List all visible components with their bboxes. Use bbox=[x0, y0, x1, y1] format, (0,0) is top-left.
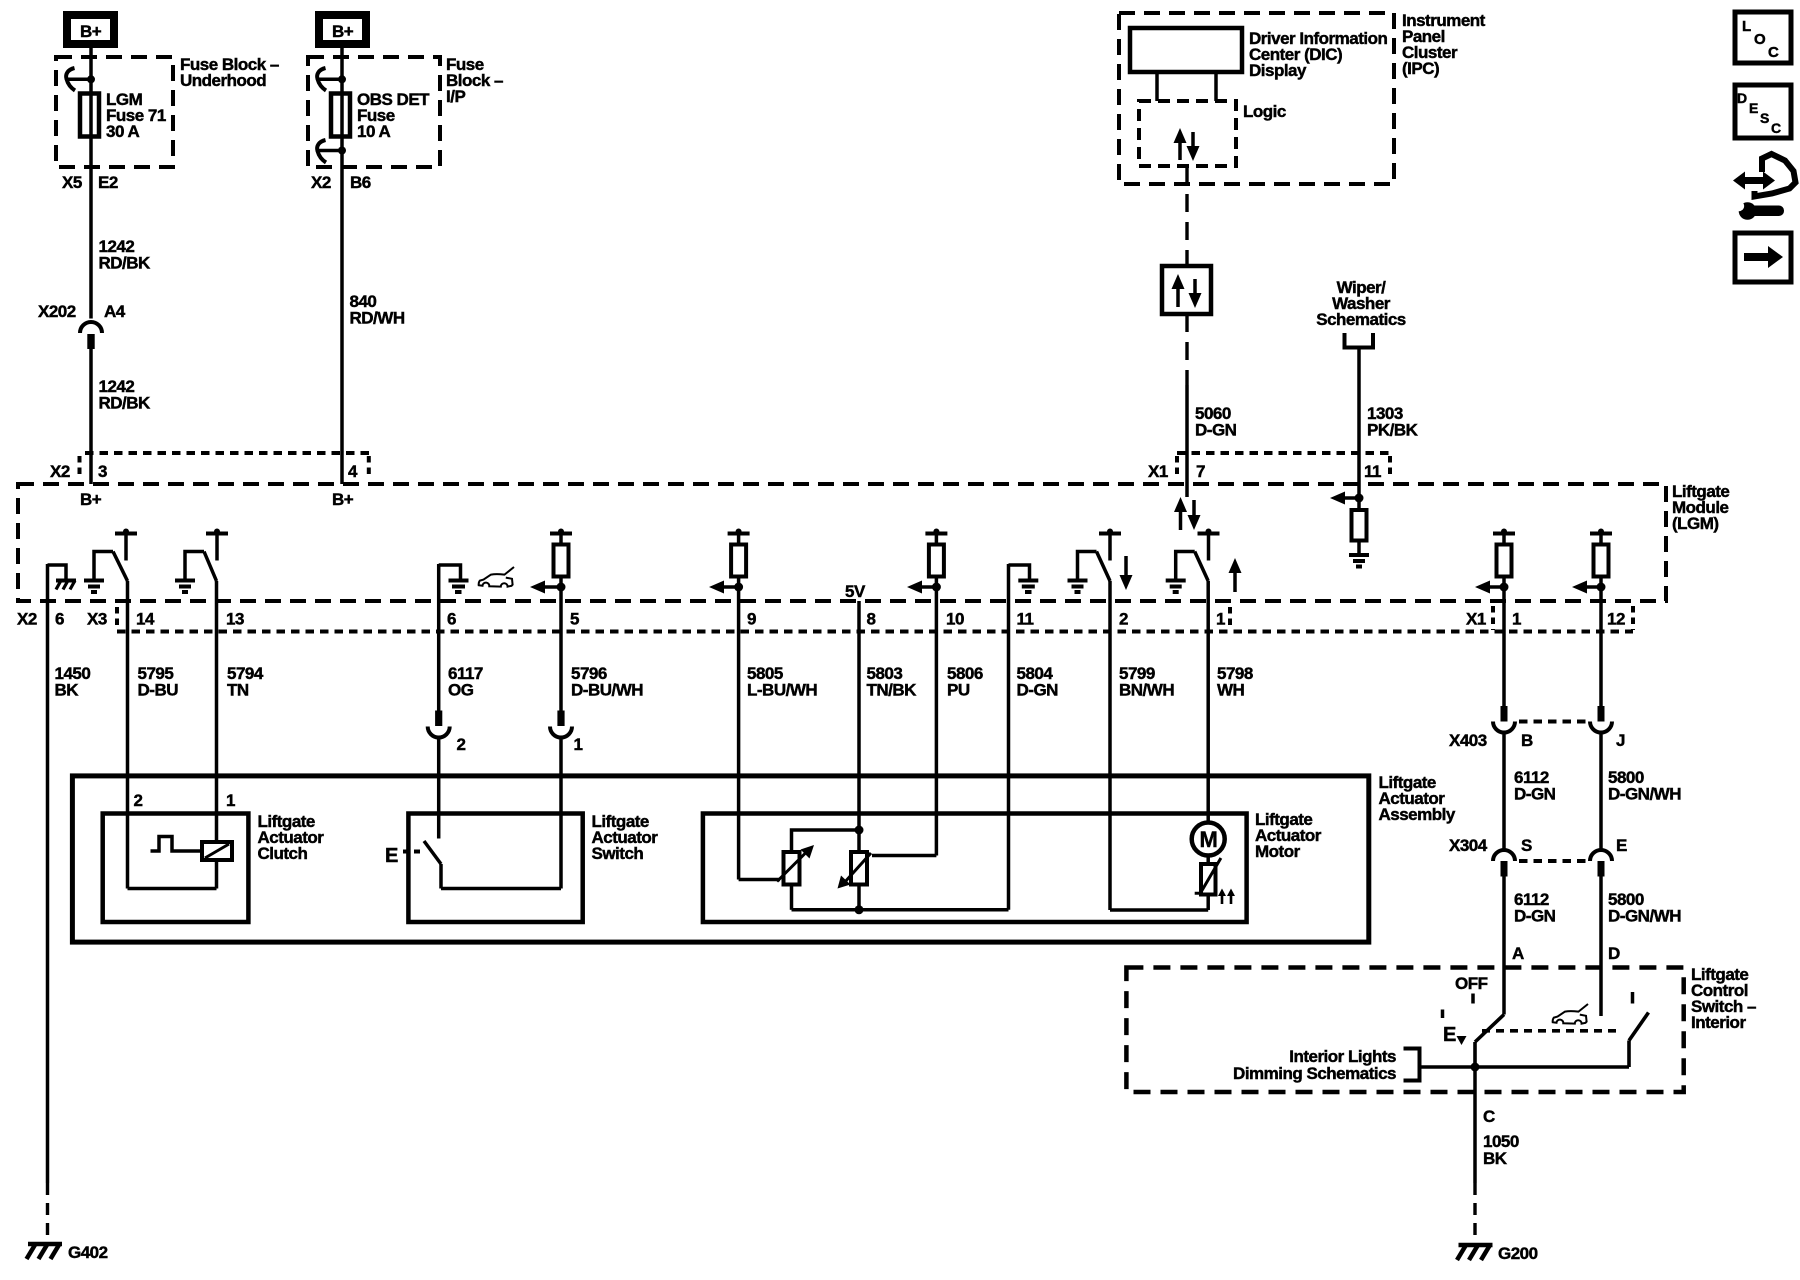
svg-text:D-GN: D-GN bbox=[1195, 421, 1237, 440]
svg-text:X3: X3 bbox=[87, 610, 107, 629]
svg-text:5: 5 bbox=[570, 610, 579, 629]
resistor X1-1 bbox=[1493, 529, 1515, 588]
pin labels X2 B6 bbox=[311, 173, 371, 192]
terminal clip hook OBS bottom bbox=[317, 140, 346, 163]
svg-text:D-GN: D-GN bbox=[1514, 907, 1556, 926]
label Fuse Block Underhood bbox=[180, 55, 279, 90]
switch LGM pin14 ground bbox=[84, 552, 113, 593]
svg-text:E: E bbox=[1443, 1024, 1456, 1046]
wire 5800 D-GN/WH mid bbox=[1599, 733, 1603, 851]
wire pot1 top to 5V bbox=[792, 830, 860, 852]
svg-text:A4: A4 bbox=[104, 302, 126, 321]
wire 5805 L-BU/WH bbox=[739, 587, 818, 880]
liftgate car icon switch bbox=[1553, 1004, 1588, 1024]
switch actuator blade bbox=[424, 841, 561, 889]
up arrow in logic box bbox=[1174, 128, 1187, 160]
wire 5796 D-BU/WH bbox=[561, 587, 643, 711]
fuse block I/P box bbox=[308, 57, 440, 167]
wire 6117 OG to switch bbox=[437, 738, 441, 839]
inline connector X202 A4 bbox=[38, 302, 126, 349]
svg-text:D-BU/WH: D-BU/WH bbox=[571, 681, 643, 700]
svg-text:J: J bbox=[1616, 731, 1625, 750]
svg-text:D-GN: D-GN bbox=[1514, 785, 1556, 804]
tiny up arrows thermistor bbox=[1218, 889, 1235, 905]
svg-text:13: 13 bbox=[226, 610, 244, 629]
tick X3 bbox=[115, 607, 119, 630]
wire B+ feed to LGM fuse bbox=[89, 48, 93, 319]
node sensor ground junction bbox=[855, 905, 864, 914]
connector row X3/X1 dotted line bbox=[117, 630, 1633, 634]
dashed wire serial box down bbox=[1185, 314, 1188, 385]
liftgate car icon module bbox=[479, 567, 514, 587]
resistor LGM pin5 bbox=[550, 529, 572, 588]
svg-text:O: O bbox=[1754, 31, 1766, 48]
logic box bbox=[1139, 101, 1236, 166]
svg-text:X304: X304 bbox=[1449, 836, 1488, 855]
switch LGM pin1 blade bbox=[1195, 552, 1209, 582]
svg-text:RD/WH: RD/WH bbox=[350, 309, 405, 328]
svg-text:C: C bbox=[1768, 44, 1779, 61]
svg-text:B: B bbox=[1521, 731, 1533, 750]
label Liftgate Actuator Motor bbox=[1255, 810, 1322, 861]
wire 6112 D-GN upper bbox=[1504, 587, 1556, 804]
svg-text:BK: BK bbox=[1483, 1149, 1508, 1168]
svg-text:2: 2 bbox=[134, 791, 143, 810]
wire 1050 BK bbox=[1475, 1067, 1519, 1246]
svg-text:I/P: I/P bbox=[446, 87, 465, 106]
icon diagnostic arrows bbox=[1733, 154, 1796, 197]
potentiometer sensor2 bbox=[838, 852, 872, 889]
tick X1 left bbox=[1491, 606, 1495, 630]
switch LGM pin1 contact bbox=[1198, 529, 1220, 561]
svg-text:E: E bbox=[1616, 836, 1627, 855]
wire 5806 PU bbox=[936, 587, 982, 856]
svg-text:3: 3 bbox=[98, 462, 107, 481]
svg-text:Schematics: Schematics bbox=[1316, 310, 1406, 329]
potentiometer sensor1 bbox=[777, 845, 814, 885]
labels X403 B J bbox=[1449, 731, 1625, 750]
svg-text:6: 6 bbox=[447, 610, 456, 629]
svg-text:D: D bbox=[1608, 944, 1620, 963]
svg-text:9: 9 bbox=[747, 610, 756, 629]
left arrow X1-12 input bbox=[1572, 581, 1606, 594]
connector X1 row pins 7 and 11 bbox=[1148, 453, 1390, 481]
bracket wiper washer feed bbox=[1345, 333, 1374, 348]
left arrow pin9 input bbox=[709, 581, 743, 594]
svg-text:X2: X2 bbox=[50, 462, 70, 481]
inline connector wire6 pin2 bbox=[428, 711, 466, 755]
tick X1 right bbox=[1631, 606, 1635, 630]
svg-text:G200: G200 bbox=[1498, 1244, 1538, 1263]
wire 5795 D-BU bbox=[128, 581, 179, 889]
wire clutch inner loop bbox=[128, 860, 217, 889]
labels X304 S E bbox=[1449, 836, 1627, 855]
resistor wiper pulldown bbox=[1352, 498, 1367, 554]
switch blade A bbox=[1475, 1015, 1504, 1068]
label Driver Information Center DIC Display bbox=[1249, 29, 1387, 80]
switch LGM pin2 ground bbox=[1068, 552, 1097, 593]
svg-text:Display: Display bbox=[1249, 61, 1307, 80]
clutch pulse symbol bbox=[151, 837, 203, 852]
label Instrument Panel Cluster IPC bbox=[1402, 11, 1486, 78]
liftgate actuator assembly box bbox=[72, 776, 1368, 942]
fuse block underhood box bbox=[56, 57, 173, 167]
svg-text:PU: PU bbox=[947, 681, 970, 700]
svg-text:2: 2 bbox=[457, 735, 466, 754]
connector X304 pin S bbox=[1493, 850, 1515, 877]
down arrow pin2 bbox=[1120, 556, 1133, 590]
left arrow wiper signal bbox=[1330, 492, 1359, 505]
svg-text:Motor: Motor bbox=[1255, 842, 1301, 861]
svg-text:E: E bbox=[1749, 100, 1758, 116]
svg-text:S: S bbox=[1760, 110, 1769, 126]
wire pot2 bottom bbox=[857, 885, 861, 910]
svg-text:Logic: Logic bbox=[1243, 102, 1286, 121]
svg-text:6: 6 bbox=[55, 610, 64, 629]
svg-text:B6: B6 bbox=[350, 173, 371, 192]
resistor LGM pin9 bbox=[728, 529, 750, 588]
svg-text:10: 10 bbox=[946, 610, 964, 629]
svg-text:X5: X5 bbox=[62, 173, 82, 192]
switch LGM pin14 contact bbox=[115, 529, 137, 561]
wire B+ feed to OBS DET fuse bbox=[340, 48, 344, 484]
resistor LGM pin10 bbox=[925, 529, 947, 588]
up arrow in serial box bbox=[1172, 274, 1185, 307]
connector X2 row pins 3 and 4 bbox=[50, 453, 369, 481]
switch LGM pin1 ground bbox=[1166, 552, 1195, 593]
label Interior Lights Dimming Schematics bbox=[1233, 1047, 1396, 1083]
svg-text:(IPC): (IPC) bbox=[1402, 59, 1439, 78]
dashed wire logic to serial box bbox=[1185, 166, 1188, 266]
svg-text:TN/BK: TN/BK bbox=[867, 681, 918, 700]
svg-text:30 A: 30 A bbox=[106, 122, 140, 141]
up arrow X1-7 input bbox=[1174, 497, 1187, 530]
liftgate module LGM box bbox=[18, 484, 1666, 601]
svg-text:X202: X202 bbox=[38, 302, 76, 321]
switch LGM pin14 blade bbox=[113, 552, 128, 582]
down arrow in logic box bbox=[1187, 132, 1200, 161]
wire 5800 D-GN/WH lower bbox=[1601, 877, 1681, 1017]
svg-text:10 A: 10 A bbox=[357, 122, 391, 141]
tick right of pin1 bbox=[1228, 607, 1232, 630]
terminal clip hook OBS top bbox=[317, 68, 346, 91]
svg-text:RD/BK: RD/BK bbox=[99, 254, 152, 273]
connector X403 pin B bbox=[1493, 706, 1515, 733]
label Wiper Washer Schematics bbox=[1316, 278, 1406, 329]
svg-text:D: D bbox=[1737, 90, 1747, 106]
wire 5804 D-GN bbox=[1009, 564, 1059, 910]
label Liftgate Actuator Assembly bbox=[1379, 773, 1456, 824]
svg-text:12: 12 bbox=[1607, 610, 1625, 629]
pin labels X5 E2 bbox=[62, 173, 118, 192]
svg-text:M: M bbox=[1200, 827, 1218, 852]
svg-text:2: 2 bbox=[1119, 610, 1128, 629]
svg-text:8: 8 bbox=[867, 610, 876, 629]
svg-text:X1: X1 bbox=[1148, 462, 1168, 481]
svg-text:BN/WH: BN/WH bbox=[1119, 681, 1174, 700]
switch LGM pin2 blade bbox=[1097, 552, 1111, 582]
svg-text:Dimming Schematics: Dimming Schematics bbox=[1233, 1064, 1396, 1083]
svg-text:B+: B+ bbox=[332, 490, 354, 509]
fuse OBS DET 10 A bbox=[331, 90, 430, 141]
node wiper input junction bbox=[1355, 494, 1364, 503]
ground LGM pin11 bbox=[1009, 565, 1039, 592]
svg-text:C: C bbox=[1771, 120, 1781, 136]
wire DIC to logic left bbox=[1155, 72, 1159, 101]
bracket interior lights feed bbox=[1404, 1049, 1420, 1081]
left arrow pin5 output bbox=[530, 581, 566, 594]
svg-text:G402: G402 bbox=[68, 1243, 108, 1262]
wire 6112 D-GN mid bbox=[1502, 733, 1506, 851]
wire 5794 TN bbox=[217, 581, 264, 842]
serial data arrow box bbox=[1162, 266, 1211, 314]
svg-text:OG: OG bbox=[448, 681, 474, 700]
svg-text:S: S bbox=[1521, 836, 1532, 855]
label Liftgate Module LGM bbox=[1672, 482, 1729, 533]
svg-text:5V: 5V bbox=[845, 582, 866, 601]
connector X403 pin J bbox=[1590, 706, 1612, 733]
resistor X1-12 bbox=[1590, 529, 1612, 588]
label Fuse Block I/P bbox=[446, 55, 503, 106]
ground wiper pulldown bbox=[1349, 555, 1369, 567]
icon DESC box bbox=[1735, 85, 1791, 138]
wire 840 RD/WH label bbox=[350, 292, 405, 328]
left arrow X1-1 input bbox=[1475, 581, 1509, 594]
svg-text:D-GN/WH: D-GN/WH bbox=[1608, 785, 1681, 804]
svg-text:L: L bbox=[1742, 18, 1751, 35]
wire sensor bottom bus bbox=[792, 908, 1009, 912]
wire 1450 BK bbox=[48, 564, 91, 1245]
icon next arrow box bbox=[1735, 233, 1791, 282]
off position dash bbox=[1471, 994, 1475, 1004]
wire pin9 to pot1 wiper bbox=[739, 878, 780, 882]
wire pot1 bottom bbox=[790, 885, 794, 910]
wire 5798 WH bbox=[1208, 581, 1253, 823]
wire 6112 D-GN lower bbox=[1504, 877, 1556, 1015]
svg-text:RD/BK: RD/BK bbox=[99, 394, 152, 413]
icon wrench bbox=[1731, 197, 1784, 220]
wire 5060 D-GN bbox=[1187, 385, 1237, 497]
wire 5799 BN/WH bbox=[1110, 581, 1174, 910]
svg-text:7: 7 bbox=[1196, 462, 1205, 481]
svg-text:(LGM): (LGM) bbox=[1672, 514, 1719, 533]
motor M circle bbox=[1192, 823, 1225, 856]
svg-text:1: 1 bbox=[574, 735, 583, 754]
wire DIC to logic right bbox=[1214, 72, 1218, 101]
wire 1303 PK/BK bbox=[1359, 348, 1419, 499]
svg-text:PK/BK: PK/BK bbox=[1367, 421, 1419, 440]
svg-text:X1: X1 bbox=[1466, 610, 1486, 629]
wire motor bottom loop bbox=[1110, 908, 1208, 912]
switch LGM pin13 blade bbox=[204, 552, 217, 582]
label E actuation bbox=[385, 845, 420, 867]
wire 5803 TN/BK bbox=[859, 601, 917, 852]
wire pin10 to pot2 wiper bbox=[872, 854, 936, 858]
connector X304 pin E bbox=[1590, 850, 1612, 877]
thermistor motor bbox=[1195, 856, 1221, 911]
svg-text:1: 1 bbox=[1216, 610, 1225, 629]
down arrow X1-7 input bbox=[1188, 500, 1201, 530]
svg-text:TN: TN bbox=[227, 681, 249, 700]
svg-text:L-BU/WH: L-BU/WH bbox=[747, 681, 817, 700]
label Liftgate Control Switch Interior bbox=[1691, 965, 1756, 1032]
svg-text:B+: B+ bbox=[80, 22, 102, 41]
ground G402 bbox=[27, 1243, 108, 1262]
switch link dotted bbox=[1482, 1029, 1618, 1033]
liftgate control switch box bbox=[1126, 968, 1683, 1093]
svg-text:D-GN/WH: D-GN/WH bbox=[1608, 907, 1681, 926]
liftgate actuator switch box bbox=[408, 814, 582, 923]
clutch solenoid element bbox=[202, 842, 232, 860]
connector X403 link bbox=[1519, 720, 1588, 724]
svg-text:11: 11 bbox=[1364, 462, 1381, 481]
chassis ground X2-6 jog bbox=[48, 565, 67, 579]
switch LGM pin13 ground bbox=[175, 552, 204, 593]
fuse LGM Fuse 71 30 A bbox=[80, 90, 166, 141]
DIC display box bbox=[1130, 28, 1242, 72]
label Liftgate Actuator Switch bbox=[592, 812, 659, 863]
svg-text:X403: X403 bbox=[1449, 731, 1487, 750]
instrument panel cluster box bbox=[1119, 13, 1394, 184]
svg-text:E2: E2 bbox=[98, 173, 118, 192]
down arrow in serial box bbox=[1189, 279, 1202, 308]
ground LGM pin6 bbox=[439, 565, 469, 592]
wire 6117 OG bbox=[439, 564, 483, 711]
svg-text:WH: WH bbox=[1217, 681, 1245, 700]
svg-text:Interior: Interior bbox=[1691, 1013, 1746, 1032]
svg-text:B+: B+ bbox=[332, 22, 354, 41]
svg-text:1: 1 bbox=[1512, 610, 1521, 629]
liftgate actuator clutch box bbox=[103, 814, 249, 923]
node junction 5V bbox=[855, 826, 864, 835]
right position dash bbox=[1631, 992, 1635, 1004]
terminal clip hook F71 bbox=[66, 68, 95, 91]
icon LOC box bbox=[1735, 12, 1791, 63]
liftgate position sensor box bbox=[703, 814, 1247, 923]
svg-text:A: A bbox=[1512, 944, 1524, 963]
wire 5800 D-GN/WH upper bbox=[1601, 587, 1681, 804]
left arrow pin10 input bbox=[907, 581, 941, 594]
svg-text:Underhood: Underhood bbox=[180, 71, 266, 90]
ground G200 bbox=[1457, 1244, 1538, 1263]
switch blade D bbox=[1629, 1013, 1649, 1068]
svg-text:4: 4 bbox=[348, 462, 358, 481]
svg-text:X2: X2 bbox=[311, 173, 331, 192]
label Ev actuation bbox=[1443, 1010, 1467, 1047]
svg-text:B+: B+ bbox=[80, 490, 102, 509]
svg-text:C: C bbox=[1483, 1107, 1495, 1126]
svg-text:E: E bbox=[385, 845, 398, 867]
connector X304 link bbox=[1519, 859, 1588, 863]
svg-text:11: 11 bbox=[1017, 610, 1034, 629]
switch LGM pin2 contact bbox=[1099, 529, 1121, 561]
up arrow pin1 bbox=[1229, 558, 1242, 592]
inline connector wire5 pin1 bbox=[550, 711, 583, 755]
wire 5796 to switch bottom bbox=[559, 738, 563, 889]
svg-text:BK: BK bbox=[55, 681, 80, 700]
svg-text:1: 1 bbox=[226, 791, 235, 810]
B+ terminal 2 bbox=[319, 15, 366, 44]
svg-text:14: 14 bbox=[136, 610, 155, 629]
label Liftgate Actuator Clutch bbox=[258, 812, 325, 863]
node switch common junction bbox=[1471, 1063, 1480, 1072]
svg-text:D-BU: D-BU bbox=[138, 681, 179, 700]
wire 1242 RD/BK lower bbox=[91, 349, 151, 484]
wire 1242 RD/BK upper label bbox=[99, 237, 152, 273]
svg-text:D-GN: D-GN bbox=[1017, 681, 1059, 700]
chassis ground symbol module bbox=[56, 581, 76, 590]
wire switch common bbox=[1420, 1065, 1630, 1069]
svg-text:Clutch: Clutch bbox=[258, 844, 308, 863]
switch LGM pin13 contact bbox=[206, 529, 228, 561]
svg-text:Switch: Switch bbox=[592, 844, 644, 863]
B+ terminal 1 bbox=[67, 15, 114, 44]
svg-text:X2: X2 bbox=[17, 610, 37, 629]
svg-text:OFF: OFF bbox=[1455, 974, 1488, 993]
svg-text:Assembly: Assembly bbox=[1379, 805, 1456, 824]
